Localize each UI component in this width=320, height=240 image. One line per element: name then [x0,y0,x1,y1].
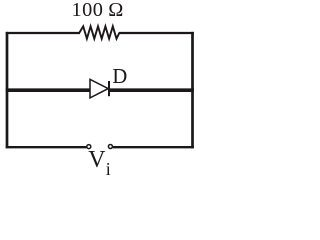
wire: middle thick right segment [110,88,194,92]
wire: bottom-right segment [113,146,194,148]
label: D for diode [112,66,127,89]
resistor R1 100 Ω zigzag [80,26,120,38]
wire: top-left segment [6,32,80,34]
label: Vi subscript i [106,159,111,180]
wire: bottom-left segment [6,146,87,148]
wire: right vertical [191,32,194,148]
diode D cathode bar [108,81,110,96]
terminal node: right circle of Vi [108,145,112,149]
wire: left vertical [6,32,9,148]
terminal node: left circle of Vi [87,145,91,149]
wire: top-right segment [119,32,194,34]
wire: middle thick left segment [6,88,90,92]
diode D triangle (anode) [90,79,108,98]
label: Vi source name V [88,147,105,174]
value label: 100 Ω for resistor R1 [72,0,124,22]
